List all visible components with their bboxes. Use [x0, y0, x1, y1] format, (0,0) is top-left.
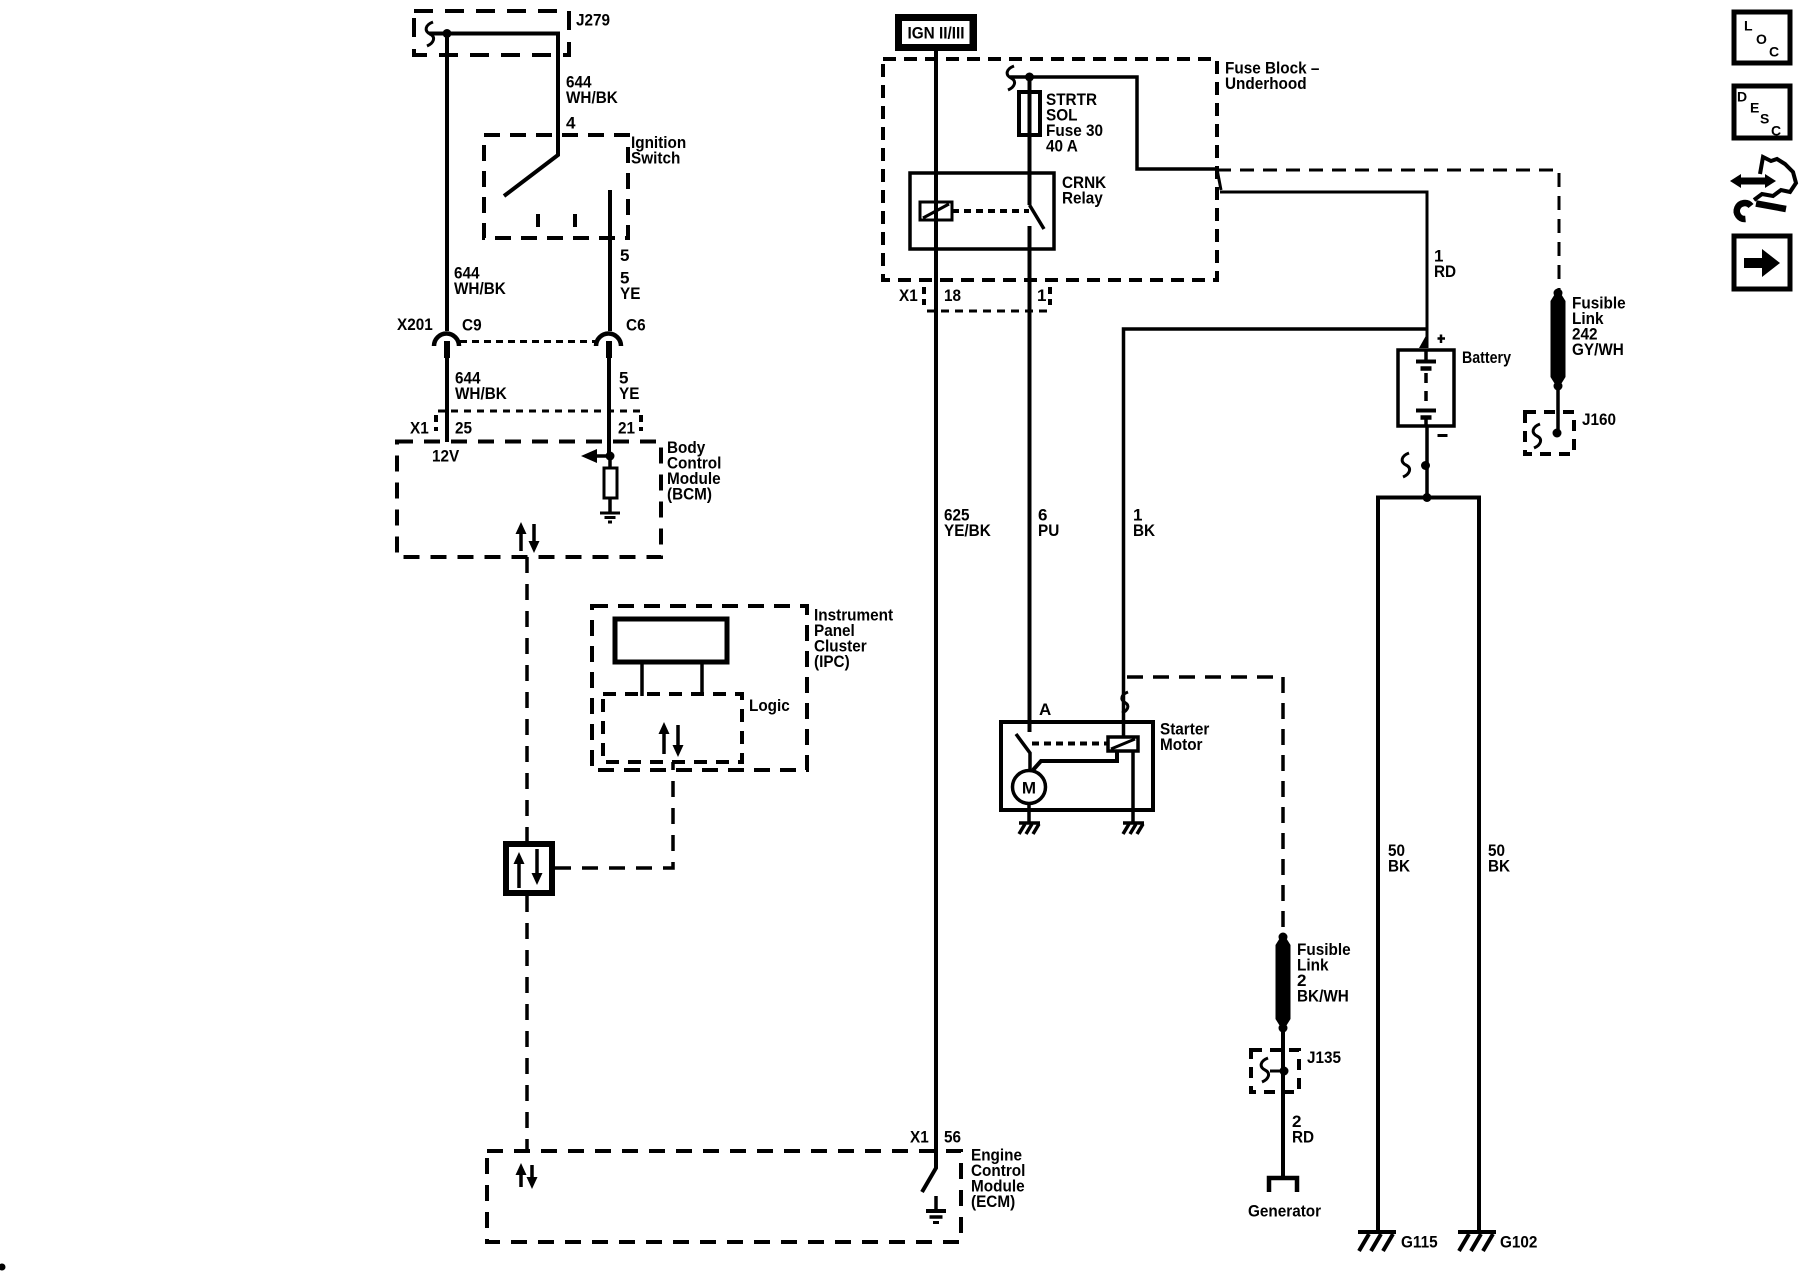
ground bus bar [1378, 498, 1479, 1231]
fuse block connector X1 label [899, 286, 918, 305]
serial data dashed wire interface box to ECM [525, 896, 529, 1151]
wire label 644 WH/BK (lower) [455, 369, 507, 404]
svg-text:RD: RD [1434, 262, 1456, 281]
connector X201 C9 pin bar [444, 341, 450, 358]
battery box [1398, 350, 1454, 426]
icon DESC box [1734, 86, 1790, 139]
wire label 6 PU [1038, 506, 1059, 541]
connector J160 label [1582, 410, 1616, 429]
BCM connector X1 label [410, 419, 429, 438]
BCM serial data arrows [516, 522, 540, 553]
node 12V label [432, 447, 460, 466]
svg-text:C: C [1769, 44, 1779, 60]
wire 5 YE below X201 [607, 358, 611, 456]
ignition switch detent marks [538, 214, 575, 227]
svg-text:YE/BK: YE/BK [944, 521, 991, 540]
CRNK relay box [910, 173, 1054, 249]
resistor inside BCM [604, 456, 617, 498]
fuse STRTR SOL [1019, 77, 1040, 205]
svg-text:C: C [1771, 123, 1781, 139]
starter solenoid ground wire [1131, 751, 1135, 822]
fuse block connector X1 band [924, 287, 1051, 311]
ground inside BCM [600, 498, 620, 522]
svg-text:E: E [1750, 100, 1759, 116]
wire 1 BK battery branch to starter solenoid [1124, 329, 1428, 737]
wire 2 RD to generator [1281, 1094, 1285, 1178]
svg-text:IGN II/III: IGN II/III [908, 24, 965, 43]
svg-text:Logic: Logic [749, 696, 790, 715]
connector X201 C6 pin bar [606, 341, 612, 358]
wire 644 WH/BK below X201 [445, 358, 449, 442]
svg-text:WH/BK: WH/BK [454, 279, 506, 298]
logic box [603, 694, 742, 762]
wire 1 RD to battery [1220, 192, 1427, 348]
connector X201 C9 arc [434, 334, 459, 347]
fusible link 2 label [1297, 940, 1351, 1006]
svg-text:WH/BK: WH/BK [455, 384, 507, 403]
ECM pin 56 label [944, 1128, 961, 1147]
BCM label [667, 438, 721, 504]
body control module box [397, 442, 661, 558]
wire label 644 WH/BK (upper) [566, 73, 618, 108]
starter motor label [1160, 720, 1210, 755]
wire from J279 to ignition switch pin 4 [429, 34, 558, 197]
connector J160 dot [1553, 429, 1562, 438]
wire label 2 RD [1292, 1112, 1314, 1147]
connector X201 label [397, 315, 433, 334]
svg-text:L: L [1744, 18, 1753, 34]
CRNK relay label [1062, 173, 1107, 208]
svg-text:S: S [1760, 111, 1769, 127]
generator terminal [1269, 1178, 1297, 1192]
svg-text:5: 5 [620, 246, 629, 265]
svg-text:BK: BK [1488, 857, 1511, 876]
wire relay switch to pin 1 [1028, 226, 1032, 311]
battery label [1462, 348, 1511, 367]
splice dot below battery [1421, 461, 1430, 470]
svg-text:56: 56 [944, 1128, 961, 1147]
svg-text:D: D [1737, 89, 1747, 105]
wire label 625 YE/BK [944, 506, 991, 541]
fusible link 242 element [1551, 289, 1566, 391]
svg-text:25: 25 [455, 419, 472, 438]
svg-text:J135: J135 [1307, 1048, 1341, 1067]
ignition switch label [631, 133, 686, 168]
svg-text:18: 18 [944, 286, 961, 305]
wire relay coil to pin 18 [934, 249, 938, 311]
CRNK relay switch [1030, 205, 1045, 229]
generator label [1248, 1202, 1321, 1221]
dashed wire fuse block to fusible link 242 [1217, 170, 1559, 291]
svg-text:WH/BK: WH/BK [566, 88, 618, 107]
starter solenoid coil [1108, 737, 1138, 751]
svg-text:(IPC): (IPC) [814, 652, 850, 671]
icon wiring wrench [1730, 157, 1796, 219]
wire battery negative down [1425, 426, 1429, 498]
connector J279 box [414, 11, 569, 55]
connector J135 dot [1270, 1067, 1289, 1076]
BCM connector X1 band [436, 411, 641, 431]
serial data interface box [506, 844, 552, 893]
splice squiggle at fuse [1007, 66, 1014, 90]
pin 5 label [620, 246, 629, 265]
svg-text:1: 1 [1037, 286, 1046, 305]
ECM input switch [922, 1151, 936, 1192]
svg-text:Relay: Relay [1062, 189, 1103, 208]
wire label 1 BK [1133, 506, 1156, 541]
battery minus label [1438, 434, 1448, 437]
wire label 5 YE (upper) [620, 269, 640, 304]
BCM pin 25 label [455, 419, 472, 438]
wire label 5 YE (lower) [619, 369, 639, 404]
svg-text:Motor: Motor [1160, 735, 1203, 754]
wire fuse top to battery branch [1010, 77, 1217, 169]
power feed badge IGN II/III [895, 14, 977, 51]
engine control module box [487, 1151, 961, 1242]
dashed wire solenoid branch to fusible link 2 [1127, 677, 1283, 933]
icon forward arrow box [1734, 236, 1790, 289]
instrument panel cluster box [592, 606, 807, 770]
fuse block pin 18 label [944, 286, 961, 305]
svg-text:YE: YE [620, 284, 640, 303]
splice squiggle on solenoid wire [1122, 692, 1128, 713]
connector X201 dashed link [460, 340, 597, 343]
svg-text:G102: G102 [1500, 1233, 1537, 1252]
starter motor M circle [1013, 771, 1046, 804]
exit slash at fuse block edge [1217, 169, 1221, 190]
svg-text:PU: PU [1038, 521, 1059, 540]
svg-text:GY/WH: GY/WH [1572, 340, 1624, 359]
svg-text:12V: 12V [432, 447, 460, 466]
battery terminal slash [1419, 332, 1428, 348]
starter motor wire M to solenoid [1033, 751, 1117, 770]
ground G102 label [1500, 1233, 1537, 1252]
svg-text:C6: C6 [626, 316, 646, 335]
pin 4 label [566, 114, 576, 133]
starter pin A label [1039, 700, 1051, 719]
svg-text:X201: X201 [397, 315, 433, 334]
junction dot BCM input [606, 452, 615, 461]
fuse block pin 1 label [1037, 286, 1046, 305]
svg-text:J160: J160 [1582, 410, 1616, 429]
svg-text:X1: X1 [899, 286, 918, 305]
wire 644 WH/BK from J279 down to X201 [445, 34, 449, 332]
fuse label STRTR SOL Fuse 30 40 A [1046, 90, 1103, 156]
svg-text:X1: X1 [910, 1128, 929, 1147]
svg-text:X1: X1 [410, 419, 429, 438]
wire label 1 RD [1434, 247, 1456, 282]
svg-text:O: O [1756, 31, 1767, 47]
ground G102 [1458, 1232, 1496, 1251]
svg-text:BK: BK [1133, 521, 1156, 540]
svg-text:Generator: Generator [1248, 1202, 1321, 1221]
svg-text:(BCM): (BCM) [667, 485, 712, 504]
connector J160 squiggle [1533, 424, 1540, 448]
signal arrow left inside BCM [581, 449, 610, 463]
svg-text:21: 21 [618, 419, 635, 438]
wire 6 PU relay to starter pin A [1028, 311, 1032, 732]
fusible link 2 element [1276, 933, 1291, 1033]
connector J160 box [1525, 412, 1574, 454]
IPC display rectangle [615, 619, 727, 662]
wire label 50 BK (left) [1388, 841, 1411, 876]
starter motor ground [1019, 823, 1040, 834]
starter solenoid ground [1123, 823, 1144, 834]
ECM label [971, 1146, 1025, 1212]
connector J135 squiggle [1261, 1058, 1268, 1082]
IPC display legs [642, 662, 702, 696]
ECM serial data arrows [516, 1163, 538, 1189]
junction dot ground bus [1423, 493, 1432, 502]
wire label 50 BK (right) [1488, 841, 1511, 876]
wire fusible link 2 to J135 [1281, 1028, 1285, 1094]
serial data dashed wire interface box to IPC logic [555, 762, 673, 868]
battery cell symbol [1416, 350, 1436, 426]
wire 625 YE/BK relay to ECM [934, 311, 938, 1151]
connector C6 label [626, 316, 646, 335]
connector X201 C6 arc [596, 334, 621, 347]
starter motor box [1001, 722, 1153, 810]
starter solenoid dashed link [1032, 742, 1108, 746]
svg-text:Switch: Switch [631, 149, 680, 168]
svg-text:BK/WH: BK/WH [1297, 987, 1349, 1006]
icon LOC box [1734, 12, 1790, 63]
svg-text:Underhood: Underhood [1225, 74, 1307, 93]
svg-text:YE: YE [619, 384, 639, 403]
interface box arrows [514, 849, 543, 888]
svg-text:(ECM): (ECM) [971, 1192, 1015, 1211]
ground G115 [1358, 1232, 1396, 1251]
svg-text:G115: G115 [1401, 1233, 1438, 1252]
svg-text:J279: J279 [576, 11, 610, 30]
serial data dashed wire BCM to interface box [525, 557, 529, 841]
svg-text:Battery: Battery [1462, 348, 1511, 367]
wire IGN badge to fuse block [934, 51, 938, 311]
fuse block label [1225, 59, 1319, 94]
connector J279 label [576, 11, 610, 30]
ground G115 label [1401, 1233, 1438, 1252]
starter switch [1016, 734, 1030, 771]
connector J279 splice squiggle [426, 22, 433, 46]
splice squiggle below battery [1402, 453, 1409, 477]
ECM connector X1 label [910, 1128, 929, 1147]
svg-text:BK: BK [1388, 857, 1411, 876]
ignition switch box [484, 135, 628, 238]
svg-text:4: 4 [566, 114, 576, 133]
svg-text:M: M [1022, 779, 1036, 798]
connector J135 box [1251, 1050, 1299, 1092]
ECM ground [926, 1196, 946, 1223]
connector J135 label [1307, 1048, 1341, 1067]
svg-text:C9: C9 [462, 316, 482, 335]
junction dot at J279 [443, 29, 452, 38]
svg-text:A: A [1039, 700, 1051, 719]
junction dot at fuse top [1025, 73, 1034, 82]
logic arrows [659, 722, 684, 757]
IPC label [814, 606, 893, 672]
wire label 644 WH/BK (left) [454, 264, 506, 299]
wire fusible link 242 to J160 [1556, 386, 1560, 433]
CRNK relay dashed link [952, 209, 1029, 213]
fuse block underhood box [883, 59, 1217, 280]
BCM pin 21 label [618, 419, 635, 438]
svg-text:RD: RD [1292, 1128, 1314, 1147]
starter motor ground wire [1027, 804, 1031, 823]
fusible link 242 label [1572, 294, 1626, 360]
logic label [749, 696, 790, 715]
ignition switch pin 5 wire [608, 190, 612, 331]
svg-text:40 A: 40 A [1046, 137, 1078, 156]
connector C9 label [462, 316, 482, 335]
CRNK relay coil [920, 202, 952, 220]
battery plus label [1438, 335, 1446, 344]
